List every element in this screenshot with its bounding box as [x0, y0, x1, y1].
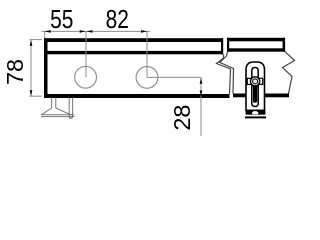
adjustable foot stem left line [51, 98, 53, 109]
dimension 55-82 line [42, 30, 151, 32]
channel section 1: bottom wall [44, 94, 230, 98]
dimension 28 top arrow [200, 78, 203, 84]
adjustable foot cone right slope [56, 108, 71, 115]
mounting hole circle right [136, 67, 158, 89]
svg-text:55: 55 [50, 5, 73, 33]
threaded rod rounded tip [69, 116, 72, 119]
channel section 1: break edge zigzag [217, 54, 231, 94]
dimension 78 line [30, 40, 32, 96]
threaded rod left line [68, 98, 70, 116]
bracket bolt shaft in slot [253, 85, 257, 103]
dimension 78 top arrow [30, 40, 33, 46]
dimension 28 bottom arrow [200, 91, 203, 97]
bracket screw flange right tab [258, 78, 263, 84]
channel section 2: bottom wall [233, 94, 289, 98]
bracket screw inner circle [253, 79, 258, 84]
channel section 1: top flange outer line [44, 38, 223, 42]
bracket foot white stripe [246, 115, 266, 117]
threaded rod right line [72, 98, 74, 116]
wall bracket strap body [246, 62, 265, 111]
adjustable foot cone left slope [41, 108, 51, 115]
dimension 78 top extension line [30, 39, 43, 41]
bracket foot arch window [252, 111, 259, 115]
dimension 55 right arrow [80, 30, 86, 33]
adjustable foot stem right line [55, 98, 57, 109]
dimension 28 leader line from hole center [147, 76, 201, 78]
bracket foot bottom edge [245, 116, 266, 118]
dimension extension line at left hole center [85, 31, 87, 77]
svg-text:28: 28 [169, 105, 195, 131]
channel section 1: top flange inner line [46, 51, 223, 54]
dimension extension line at right hole center [146, 31, 148, 77]
svg-text:78: 78 [2, 59, 28, 85]
channel section 2: flange right end cap [283, 38, 286, 52]
bracket screw outer circle [251, 77, 260, 86]
channel section 2: right break edge zigzag [283, 52, 295, 94]
adjustable foot base lower line [41, 116, 75, 118]
dimension 82 left arrow [86, 30, 92, 33]
wall bracket slot [252, 68, 258, 107]
bracket foot plate [246, 110, 266, 115]
dimension extension line at channel left edge [44, 31, 46, 38]
mounting hole circle left [75, 66, 97, 88]
channel section 2: top flange inner line [227, 48, 285, 51]
channel section 1: left wall [44, 38, 48, 97]
bracket screw flange left tab [247, 78, 252, 84]
dimension 78 bottom extension line [30, 95, 43, 97]
adjustable foot base upper line [41, 114, 74, 116]
channel section 2: left break edge zigzag [220, 52, 234, 94]
dimension 82 right arrow [141, 30, 147, 33]
channel section 1: flange right end cap [221, 38, 223, 54]
channel section 2: flange left end cap [227, 38, 229, 52]
svg-text:82: 82 [106, 5, 129, 33]
channel section 2: top flange outer line [227, 38, 285, 42]
dimension 55 left arrow [45, 30, 51, 33]
dimension 28 vertical line [200, 77, 202, 136]
dimension 78 bottom arrow [30, 90, 33, 96]
